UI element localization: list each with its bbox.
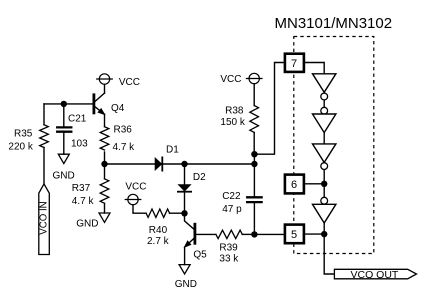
svg-text:103: 103 (71, 139, 88, 150)
ground symbol (Q5) (179, 265, 190, 274)
svg-text:VCO IN: VCO IN (39, 201, 50, 234)
junction pin5 chain node (321, 231, 327, 237)
svg-text:R36: R36 (114, 125, 133, 136)
wire node1 to pin7 riser (254, 63, 283, 155)
wire node1 to node2 to C22 (253, 154, 255, 196)
wire R35 top lead (43, 104, 45, 125)
resistor R35 (40, 125, 49, 148)
svg-text:VCC: VCC (220, 74, 241, 85)
wire pin6 to chain (305, 183, 324, 185)
svg-text:33 k: 33 k (219, 254, 239, 265)
inverter U1d (313, 204, 336, 223)
dashed IC boundary MN3101/MN3102 (294, 37, 374, 254)
svg-text:6: 6 (291, 179, 297, 191)
svg-text:220 k: 220 k (8, 142, 33, 153)
svg-text:C21: C21 (68, 114, 87, 125)
wire C22 bottom to node (253, 203, 255, 234)
port flag VCO OUT (334, 269, 416, 281)
wire inverter chain spine 3 (323, 162, 325, 204)
wire C21 to ground (63, 133, 65, 154)
power VCC symbol (R38) (246, 73, 262, 83)
junction D2/R40/Q5 node (181, 210, 187, 216)
wire R39 to node (242, 233, 254, 235)
svg-text:MN3101/MN3102: MN3101/MN3102 (275, 15, 393, 32)
svg-text:VCC: VCC (119, 77, 140, 88)
pin 7 box (285, 54, 304, 72)
wire node to right node (185, 163, 255, 165)
svg-text:2.7 k: 2.7 k (147, 236, 170, 247)
wire inverter chain spine 4 (323, 223, 325, 234)
wire C21 stem top (63, 104, 65, 126)
wire pin7 to inverter chain (305, 63, 324, 74)
junction D1 wire node (251, 161, 257, 167)
ground symbol (R37) (99, 213, 110, 222)
wire R35 bottom lead to VCO IN (43, 148, 45, 184)
wire inverter chain spine 2 (323, 133, 325, 144)
capacitor C22 (247, 197, 261, 202)
svg-text:R35: R35 (14, 129, 33, 140)
resistor R39 (216, 230, 242, 238)
wire R38 bottom to node1 (253, 132, 255, 154)
wire inverter chain spine 1 (323, 92, 325, 114)
power VCC symbol (R40) (125, 194, 141, 204)
resistor R36 (100, 127, 109, 150)
wire D1 to node (D2 tap) (163, 163, 185, 165)
inverter U1a (313, 74, 336, 93)
transistor Q4 (94, 84, 105, 126)
svg-text:GND: GND (76, 219, 98, 230)
svg-text:150 k: 150 k (220, 117, 245, 128)
svg-text:R40: R40 (149, 225, 168, 236)
bubble U1c output (321, 163, 328, 170)
bubble U1d input (321, 197, 328, 204)
svg-text:GND: GND (53, 171, 75, 182)
svg-text:R37: R37 (72, 183, 91, 194)
junction C22/R39/pin5 node (251, 231, 257, 237)
svg-text:Q4: Q4 (111, 103, 125, 114)
junction R36/R37/D1 node (101, 161, 107, 167)
wire R37 to ground (104, 203, 106, 213)
port flag VCO IN (39, 184, 50, 255)
svg-text:VCO OUT: VCO OUT (351, 269, 399, 281)
resistor R37 (100, 179, 109, 204)
wire node to R37 (104, 164, 106, 179)
junction C21 tap (61, 101, 67, 107)
bubble U1a output (321, 93, 328, 100)
wire clock output to VCO OUT (324, 234, 334, 274)
transistor Q5 (185, 213, 216, 264)
inverter U1b (313, 114, 336, 133)
diode D2 (178, 185, 191, 192)
wire R36 bottom to node (104, 152, 106, 164)
diode D1 (155, 157, 162, 170)
svg-text:R38: R38 (225, 106, 244, 117)
svg-text:R39: R39 (219, 243, 238, 254)
svg-text:D2: D2 (193, 172, 206, 183)
capacitor C21 (57, 127, 71, 131)
svg-text:VCC: VCC (125, 181, 146, 192)
svg-text:D1: D1 (166, 145, 179, 156)
wire VCC to R38 (253, 84, 255, 106)
svg-text:4.7 k: 4.7 k (72, 196, 95, 207)
svg-text:4.7 k: 4.7 k (113, 142, 136, 153)
resistor R38 (250, 106, 259, 133)
wire pin5 node to pin5 box (254, 233, 283, 235)
svg-text:47 p: 47 p (222, 204, 242, 215)
svg-text:7: 7 (291, 58, 297, 70)
wire top-left horizontal (R35/C21 to Q4 base) (44, 103, 93, 105)
wire main node to D1 (105, 163, 156, 165)
pin 6 box (285, 175, 304, 194)
resistor R40 (146, 209, 169, 217)
junction D1/D2 node (181, 161, 187, 167)
svg-text:GND: GND (175, 279, 197, 290)
svg-text:Q5: Q5 (193, 250, 207, 261)
pin 5 box (285, 225, 304, 244)
junction pin6 node (321, 181, 327, 187)
bubble U1b input (321, 107, 328, 114)
ground symbol (C21) (58, 154, 69, 163)
inverter U1c (313, 144, 336, 163)
wire pin5 to chain (305, 233, 324, 235)
wire D2 to node (184, 193, 186, 214)
wire D2 stem top (184, 164, 186, 185)
junction R38 node (251, 151, 257, 157)
power VCC symbol (Q4) (97, 74, 113, 84)
svg-text:5: 5 (291, 229, 297, 241)
wire VCC to R40 (133, 205, 146, 214)
wire R40 to node (170, 212, 185, 214)
svg-text:C22: C22 (222, 191, 241, 202)
